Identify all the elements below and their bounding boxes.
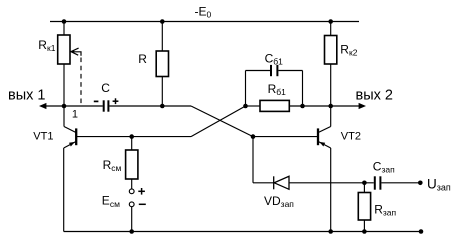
wire Rzap bottom lead: [363, 220, 365, 232]
wire VT1 base line: [76, 136, 191, 138]
wire Rsm top lead: [131, 137, 133, 150]
svg-text:1: 1: [72, 108, 78, 120]
wire Rk1 top lead: [63, 22, 65, 36]
svg-text:C: C: [101, 81, 110, 95]
wire trigger branch to diode: [253, 182, 274, 184]
wire Rzap top lead: [363, 183, 365, 193]
label vyh 1: [8, 87, 45, 103]
capacitor C plus sign: [113, 98, 119, 104]
svg-text:VT1: VT1: [33, 131, 53, 143]
label vyh 2: [356, 87, 393, 103]
junction dot VT2 collector node: [328, 104, 333, 109]
wire VT1 emitter to bottom rail: [63, 148, 65, 232]
wire R bottom lead: [161, 77, 163, 107]
label C: [101, 81, 110, 95]
plus sign Esm: [138, 188, 145, 195]
wire Rb1 left lead: [246, 105, 261, 107]
label VT2: [341, 130, 361, 142]
variable-resistor arrow on Rk1: [70, 48, 81, 56]
wire VT2 emitter to bottom rail: [330, 148, 332, 232]
junction dot R bottom: [160, 104, 165, 109]
capacitor Czap plates: [374, 176, 376, 189]
wire Cb1 left leg: [245, 71, 247, 107]
wire Cb1 right leg: [302, 71, 304, 107]
resistor Rk1: [58, 35, 70, 64]
label Czap: [373, 159, 395, 174]
transistor VT1: [64, 127, 76, 149]
wire Rk1 bottom lead / VT1 collector column: [63, 64, 65, 127]
junction dot rail/R: [160, 19, 165, 24]
capacitor Cb1 plates: [270, 65, 272, 76]
resistor Rsm: [126, 150, 138, 179]
transistor VT2: [318, 127, 331, 149]
battery Esm terminal -: [129, 202, 134, 207]
label Rzap: [374, 203, 396, 218]
wire R top lead: [161, 22, 163, 52]
wire diagonal C line to VT2 base: [191, 106, 253, 137]
junction dot Rzap / bottom rail: [362, 229, 367, 234]
junction dot VT1 collector node: [62, 104, 67, 109]
label Rk2: [340, 43, 357, 58]
junction dot VT2 base / trigger branch: [251, 134, 256, 139]
junction dot VT1 base / Rsm: [129, 134, 134, 139]
wire Czap to Uzap terminal: [381, 182, 420, 184]
wire diode to Czap node: [289, 182, 374, 184]
junction dot Rb1 right node: [300, 104, 305, 109]
arrow output 2: [359, 103, 366, 109]
wire top power rail: [50, 21, 359, 23]
wire Rk2 top lead: [330, 22, 332, 36]
capacitor C plates: [103, 100, 105, 111]
resistor Rzap: [358, 193, 370, 221]
resistor Rb1: [260, 100, 289, 111]
label Esm: [102, 194, 120, 209]
label Cb1: [265, 51, 284, 66]
junction dot Czap/Rzap node: [362, 181, 367, 186]
wire bottom rail: [64, 231, 421, 233]
svg-text:вых 1: вых 1: [8, 87, 45, 103]
dashed adjustment line to node 1: [80, 58, 82, 107]
label VT1: [33, 131, 53, 143]
label VDzap: [264, 194, 294, 209]
capacitor C minus sign: [94, 100, 99, 102]
battery Esm terminal +: [129, 189, 134, 194]
junction dot rail/Rk2: [328, 19, 333, 24]
wire VT2 base line: [253, 136, 318, 138]
wire output 1 to VT1 collector: [46, 105, 103, 107]
arrow output 1: [39, 103, 46, 109]
terminal bottom rail right end: [419, 229, 424, 234]
terminal Uzap: [418, 181, 423, 186]
wire trigger branch vertical: [252, 137, 254, 183]
label Rb1: [268, 82, 287, 97]
label Uzap: [427, 176, 451, 192]
svg-text:вых 2: вых 2: [356, 87, 393, 103]
label -E0: [195, 4, 212, 19]
junction dot Rb1 left node: [243, 104, 248, 109]
wire Rb1 right lead to VT2 collector node: [289, 105, 360, 107]
wire C to R bottom node and crossover start: [109, 105, 191, 107]
junction dot rail/Rk1: [62, 19, 67, 24]
label node 1: [72, 108, 78, 120]
wire Rk2 bottom lead / VT2 collector column: [330, 64, 332, 127]
junction dot VT2 emitter / bottom rail: [328, 229, 333, 234]
label Rsm: [103, 158, 122, 173]
capacitor Cb1 top wire: [246, 70, 271, 72]
label Rk1: [38, 38, 55, 53]
svg-text:R: R: [138, 52, 147, 66]
wire diagonal VT1 base to Rb1 node: [191, 106, 246, 137]
minus sign Esm: [139, 203, 146, 205]
diode VDzap: [274, 176, 289, 189]
resistor Rk2: [325, 36, 337, 65]
wire Rsm to battery: [131, 179, 133, 189]
label R: [138, 52, 147, 66]
junction dot Esm / bottom rail: [129, 229, 134, 234]
svg-text:VT2: VT2: [341, 130, 361, 142]
resistor R: [156, 51, 168, 77]
wire Esm to bottom rail: [131, 207, 133, 232]
